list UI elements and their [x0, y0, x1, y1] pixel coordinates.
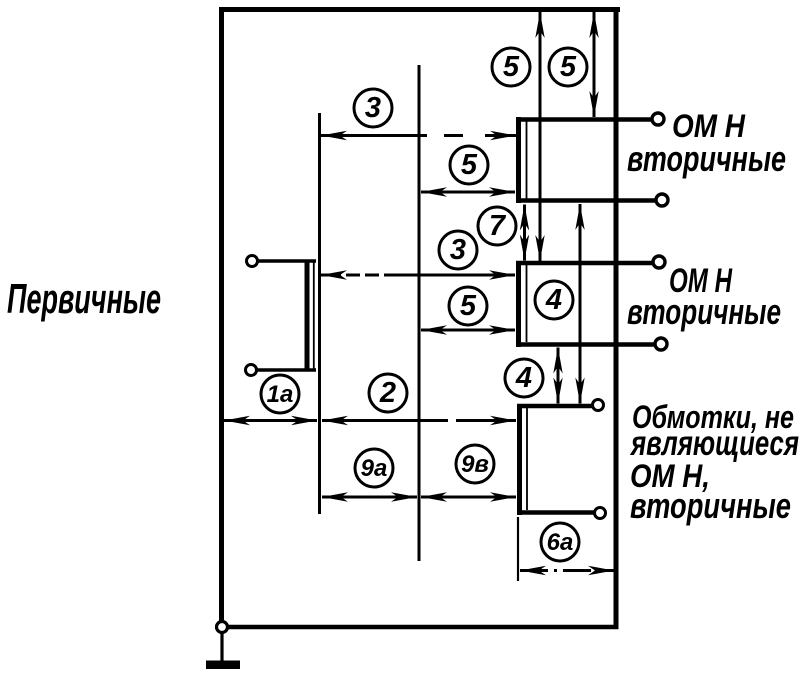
dimension arrow 1a (left border to L2)	[224, 419, 317, 422]
svg-text:5: 5	[461, 149, 478, 181]
bottom return wire	[228, 625, 619, 630]
svg-text:вторичные: вторичные	[630, 485, 791, 526]
callout bubble 4b	[505, 359, 543, 397]
dimension arrow 7 (W1 bottom to W2 top)	[523, 205, 526, 261]
winding W3 terminal circle top	[593, 400, 604, 411]
dimension arrow 9a (L2 to L3)	[322, 496, 417, 499]
svg-text:вторичные: вторичные	[627, 291, 781, 332]
extension line below winding W3	[517, 517, 519, 581]
callout bubble 6a	[541, 523, 579, 561]
ground bar	[206, 661, 240, 670]
dimension arrow 5b (top border to W1 top)	[593, 12, 596, 117]
winding W3 thick left edge	[517, 404, 522, 515]
svg-text:вторичные: вторичные	[627, 138, 786, 179]
primary winding thin edge	[313, 262, 315, 369]
callout bubble 3b	[439, 231, 477, 269]
svg-text:5: 5	[460, 290, 477, 322]
dimension arrow 3b (L2 to W2 left)	[321, 274, 515, 277]
svg-text:5: 5	[503, 51, 520, 83]
winding W2 bottom edge / lead	[516, 342, 654, 347]
callout bubble 3a	[354, 89, 392, 127]
svg-text:7: 7	[489, 210, 507, 242]
callout bubble 5a	[492, 48, 530, 86]
svg-text:2: 2	[379, 377, 396, 409]
callout bubble 9a	[355, 449, 393, 487]
winding W2 top edge / lead	[516, 261, 652, 266]
core window frame: right border	[614, 7, 619, 629]
primary winding thick edge	[305, 260, 310, 372]
callout bubble 2	[369, 374, 407, 412]
svg-text:9а: 9а	[361, 455, 388, 482]
reference line L3	[418, 65, 421, 561]
winding W3 thin inner line	[526, 408, 528, 510]
dimension arrow 2 (L2 to W3 left)	[322, 419, 516, 422]
winding W3 bottom edge / lead	[517, 510, 594, 515]
winding W3 terminal circle bottom	[595, 508, 606, 519]
winding W3 top edge / lead	[517, 404, 592, 409]
dimension arrow 3a (L2 to W1 left)	[321, 134, 516, 137]
dimension arrow 4a (W1 bottom to W3 top)	[579, 204, 582, 404]
dimension arrow 5c (L3 to W1 left)	[421, 191, 515, 194]
junction node (circle) bottom-left	[217, 622, 228, 633]
winding W1 top edge / lead	[516, 117, 651, 122]
dimension arrow 4b (W2 bottom to W3 top)	[557, 348, 560, 404]
svg-text:9в: 9в	[461, 451, 489, 478]
svg-text:3: 3	[450, 234, 466, 266]
svg-text:Первичные: Первичные	[7, 275, 161, 322]
callout bubble 5c	[450, 146, 488, 184]
winding W2 thin inner line	[526, 265, 528, 342]
svg-text:3: 3	[365, 92, 381, 124]
core window frame: top border	[219, 7, 620, 12]
winding W1 bottom edge / lead	[516, 198, 655, 203]
callout bubble 9v	[456, 445, 494, 483]
primary winding terminal circle (top)	[247, 256, 258, 267]
primary winding terminal circle (bottom)	[246, 365, 257, 376]
dimension arrow 5a (top border to W2 top)	[539, 12, 542, 261]
winding W1 thick left edge	[516, 117, 521, 203]
callout bubble 7	[478, 207, 516, 245]
reference line L2	[318, 113, 321, 514]
core window frame: left border	[219, 7, 224, 621]
callout bubble 5d	[449, 287, 487, 325]
svg-text:5: 5	[560, 51, 577, 83]
winding W2 terminal circle bottom	[655, 338, 667, 350]
winding W1 terminal circle top	[652, 113, 664, 125]
svg-text:1а: 1а	[267, 381, 294, 408]
winding W1 terminal circle bottom	[656, 194, 668, 206]
winding W2 terminal circle top	[653, 256, 665, 268]
winding W2 thick left edge	[516, 261, 521, 347]
svg-text:6а: 6а	[547, 529, 574, 556]
dimension arrow 5d (L3 to W2 left)	[421, 329, 515, 332]
dimension arrow 9b (L3 to W3 left)	[421, 496, 516, 499]
callout bubble 4a	[535, 281, 573, 319]
dimension arrow 6a (W3 left to right border)	[520, 569, 614, 572]
primary winding bottom lead wire	[257, 368, 316, 372]
callout bubble 1a	[261, 375, 299, 413]
svg-text:4: 4	[515, 362, 532, 394]
ground lead wire	[220, 633, 223, 662]
svg-text:4: 4	[545, 284, 562, 316]
primary winding top lead wire	[258, 259, 316, 263]
winding W1 thin inner line	[526, 121, 528, 199]
callout bubble 5b	[549, 48, 587, 86]
